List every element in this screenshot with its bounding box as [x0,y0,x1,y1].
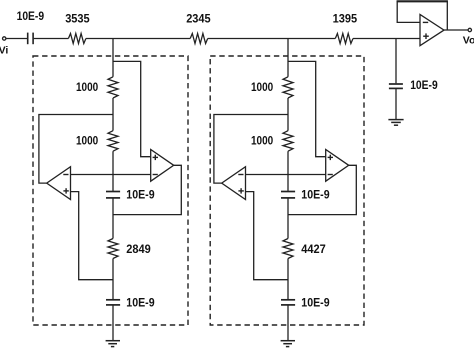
wire node A to U1 output [39,115,113,184]
U3 minus pin mark [423,21,428,23]
U2 minus pin mark [153,174,158,176]
wire branch node2 to U5 plus path [288,61,326,156]
svg-text:3535: 3535 [65,12,90,26]
wire R1000d to C3 [287,151,289,191]
dashed block 2 boundary [210,56,364,325]
svg-text:1000: 1000 [251,134,273,148]
wire C-in to R3535 [34,38,69,40]
svg-text:10E-9: 10E-9 [126,188,155,202]
resistor R1000 (block1 lower) [108,131,118,152]
wire R4427 to C4 through node C2 [287,259,289,300]
wire U2 output feedback to node B [113,165,181,214]
svg-text:10E-9: 10E-9 [410,78,438,92]
op-amp U5 (block2, points right) [326,150,349,182]
op-amp U1 (block1, points left) [47,167,71,200]
U2 plus pin mark [153,155,158,160]
resistor R2345 [190,34,208,44]
resistor R3535 [68,34,86,44]
svg-text:10E-9: 10E-9 [17,9,45,23]
ground (block1) [106,341,120,347]
svg-text:1000: 1000 [76,80,98,94]
resistor R1000 (block1 upper) [108,77,118,98]
wire C1 to R2849 through node B [112,198,114,238]
capacitor C4 10E-9 (block2 bottom) [281,300,295,305]
op-amp U3 output buffer [420,15,444,46]
U4 plus pin mark [238,188,243,193]
svg-text:2849: 2849 [126,242,151,256]
wire Vi to C-in [6,38,27,40]
dashed block 1 boundary [33,56,188,325]
svg-text:1000: 1000 [76,134,98,148]
svg-text:10E-9: 10E-9 [301,188,330,202]
wire R1000b to C1 [112,151,114,191]
resistor R2849 [108,239,118,259]
wire U1 minus to U2 minus [71,174,151,176]
wire R2849 to C2 through node C [112,259,114,300]
capacitor C-out 10E-9 [389,84,403,88]
wire R1000a to node A [112,98,114,131]
capacitor C2 10E-9 (block1 bottom) [106,300,120,305]
wire U4 minus to U5 minus [246,174,326,176]
wire U5 output feedback to node B2 [288,165,356,214]
wire node A2 to U4 output [214,115,288,184]
svg-text:4427: 4427 [301,242,326,256]
wire branch node1 to U2 plus path [113,61,151,156]
wire node1 down into block1 [112,39,114,77]
svg-text:Vo: Vo [463,35,474,47]
resistor R1000 (block2 upper) [283,77,293,98]
U5 plus pin mark [328,155,333,160]
resistor R1000 (block2 lower) [283,131,293,152]
capacitor C1 10E-9 (block1 mid) [106,192,120,198]
svg-text:Vi: Vi [0,44,8,56]
wire feedback top thick edge [397,0,448,2]
U1 minus pin mark [63,174,68,176]
svg-text:10E-9: 10E-9 [301,295,330,309]
svg-text:1000: 1000 [251,80,273,94]
wire U3 feedback loop [397,1,447,30]
svg-text:2345: 2345 [186,12,211,26]
wire C4 to ground (block2) [287,305,289,340]
wire R3535 to node1 [86,38,190,40]
wire R2345 to node2 [208,38,336,40]
resistor R4427 [283,239,293,259]
U1 plus pin mark [63,188,68,193]
wire C2 to ground (block1) [112,305,114,340]
wire R1000c to node A2 [287,98,289,131]
op-amp U4 (block2, points left) [222,167,246,200]
capacitor C-in 10E-9 [28,33,33,45]
node Vi input terminal [2,37,5,40]
wire node2 down into block2 [287,39,289,77]
resistor R1395 [335,34,353,44]
svg-text:10E-9: 10E-9 [126,295,155,309]
U4 minus pin mark [238,174,243,176]
capacitor C3 10E-9 (block2 mid) [281,192,295,198]
op-amp U2 (block1, points right) [151,150,174,182]
wire R1395 to op-amp U3 plus input [353,38,420,40]
U3 plus pin mark [423,33,429,39]
wire node C2 to U4 plus input [246,192,289,280]
ground (output) [388,120,403,126]
wire U3 output to Vo [444,29,468,31]
svg-text:1395: 1395 [333,12,358,26]
wire C-out to ground [395,89,397,119]
ground (block2) [281,341,295,347]
wire C3 to R4427 through node B2 [287,198,289,238]
U5 minus pin mark [328,174,333,176]
wire node C to U1 plus input [71,192,114,280]
node output filter junction [395,39,397,84]
node Vo output terminal [468,28,471,31]
